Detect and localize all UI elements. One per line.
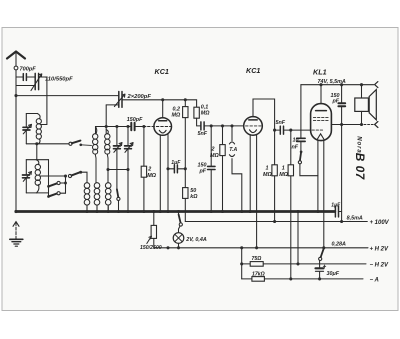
svg-text:B 07: B 07 [353, 153, 367, 181]
svg-text:MΩ: MΩ [201, 111, 210, 117]
svg-text:− A: − A [370, 277, 379, 283]
svg-text:+ H 2V: + H 2V [370, 246, 390, 252]
svg-text:pF: pF [199, 168, 207, 174]
svg-text:KL1: KL1 [313, 68, 327, 77]
svg-text:1μF: 1μF [331, 202, 341, 208]
svg-text:5nF: 5nF [276, 120, 286, 126]
svg-text:30μF: 30μF [327, 271, 340, 277]
svg-text:110/550pF: 110/550pF [45, 77, 73, 83]
svg-text:KC1: KC1 [155, 67, 169, 76]
svg-text:700pF: 700pF [20, 67, 37, 73]
svg-text:10: 10 [293, 138, 299, 144]
svg-text:2: 2 [147, 167, 151, 173]
svg-text:− H 2V: − H 2V [370, 263, 390, 269]
svg-text:1: 1 [282, 166, 285, 172]
svg-text:T.A: T.A [229, 147, 237, 153]
svg-text:MΩ: MΩ [279, 172, 288, 178]
svg-text:2×200pF: 2×200pF [127, 94, 152, 100]
svg-text:Nora: Nora [356, 136, 362, 153]
svg-text:150pF: 150pF [127, 117, 143, 123]
svg-text:5nF: 5nF [198, 131, 208, 137]
svg-text:74V, 5,5mA: 74V, 5,5mA [318, 79, 346, 85]
svg-text:MΩ: MΩ [172, 113, 181, 119]
svg-text:2: 2 [211, 147, 215, 153]
svg-text:1: 1 [266, 166, 269, 172]
svg-text:MΩ: MΩ [147, 173, 156, 179]
svg-text:kΩ: kΩ [190, 194, 198, 200]
svg-text:8,5mA: 8,5mA [347, 215, 363, 221]
svg-text:0,28A: 0,28A [332, 241, 346, 247]
svg-text:KC1: KC1 [246, 66, 260, 75]
svg-text:2V, 0,4A: 2V, 0,4A [185, 237, 207, 243]
svg-text:+ 100V: + 100V [370, 220, 390, 226]
svg-text:17kΩ: 17kΩ [252, 271, 265, 277]
svg-text:1μF: 1μF [171, 160, 181, 166]
svg-text:nF: nF [292, 145, 299, 151]
svg-text:pF: pF [332, 99, 340, 105]
svg-text:MΩ: MΩ [210, 153, 219, 159]
svg-text:75Ω: 75Ω [252, 256, 262, 262]
svg-text:MΩ: MΩ [263, 172, 272, 178]
svg-text:150/2500: 150/2500 [140, 245, 162, 251]
